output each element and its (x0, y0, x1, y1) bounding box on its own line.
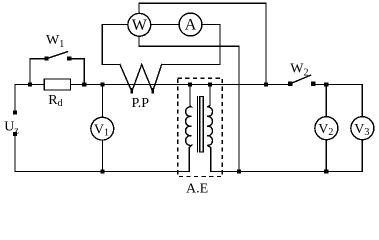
wire top line (139, 2, 266, 4)
wire wattmeter left terminal (102, 24, 128, 26)
node terminal dot Uz top (13, 110, 17, 114)
wire up to ammeter right terminal (219, 25, 221, 65)
node switch W1 right contact (67, 57, 71, 61)
node junction dot A.E right winding top (208, 82, 212, 86)
wire bottom bus right section (211, 171, 363, 173)
wire wattmeter to ammeter link (151, 24, 179, 26)
wire V3 branch top (361, 85, 363, 118)
wire W1 left stub (30, 59, 47, 85)
wire valley tick left of P.P (131, 90, 134, 93)
node terminal dot Uz bottom (13, 132, 17, 136)
wire main horizontal bus y=84.5 middle part (71, 84, 291, 86)
node junction dot wattmeter line at bottom bus (237, 169, 241, 173)
switch W2 blade (290, 75, 310, 84)
svg-text:A.E: A.E (186, 181, 208, 196)
inductor A.E left winding (186, 85, 192, 172)
wire ammeter right terminal (202, 24, 220, 26)
wire valley tick right of P.P (151, 90, 154, 93)
wire V2 branch top (325, 85, 327, 117)
node switch W2 right contact (311, 82, 315, 86)
wire V1 branch bottom (102, 140, 104, 171)
node junction dot W1 left on bus (28, 82, 32, 86)
meter V3 circle (351, 117, 374, 140)
wire W1 right stub (69, 59, 84, 85)
wire V3 branch bottom (361, 140, 363, 172)
wire drop from wattmeter bottom line to bottom bus (238, 46, 240, 171)
node switch W2 left contact (288, 82, 292, 86)
wire main horizontal bus y=84.5 left part (15, 84, 44, 86)
meter W circle (128, 13, 151, 36)
wire V1 branch top (102, 85, 104, 118)
wire wattmeter top terminal to top line (138, 3, 140, 13)
wire top line drop to main bus (265, 3, 267, 84)
node switch W1 left contact (44, 57, 48, 61)
core line of A.E (197, 97, 199, 153)
node junction dot W1 right on bus (82, 82, 86, 86)
inductor A.E right winding (207, 85, 212, 172)
wire left column top (source to main bus) (14, 85, 16, 113)
resistor P.P zigzag (120, 65, 162, 92)
node junction dot V2 top (324, 82, 328, 86)
svg-text:A: A (185, 17, 197, 34)
dashed enclosure A.E (178, 78, 223, 176)
wire P.P right lead (162, 64, 220, 66)
svg-text:P.P: P.P (132, 96, 150, 111)
wire main horizontal bus y=84.5 right part after W2 (313, 84, 362, 86)
wire lead to P.P left end (102, 64, 120, 66)
node junction dot V1 top (100, 82, 104, 86)
wire V2 branch bottom (325, 140, 327, 172)
node junction dot V1 bottom (100, 169, 104, 173)
wire wattmeter bottom terminal (138, 36, 140, 46)
wire bottom bus left section (15, 171, 189, 173)
node junction dot V2 bottom (324, 169, 328, 173)
node junction dot top-line drop (264, 82, 268, 86)
meter V2 circle (315, 117, 338, 140)
wire wattmeter bottom line (139, 45, 239, 47)
switch W1 blade (47, 52, 68, 59)
meter A circle (179, 13, 202, 36)
meter V1 circle (91, 117, 114, 140)
wire left column bottom (14, 134, 16, 172)
svg-text:W: W (132, 17, 148, 34)
node junction dot A.E left winding top (188, 82, 192, 86)
resistor Rd box (44, 79, 70, 90)
core rectangle of A.E (200, 97, 203, 153)
wire down from wattmeter left terminal (101, 25, 103, 65)
